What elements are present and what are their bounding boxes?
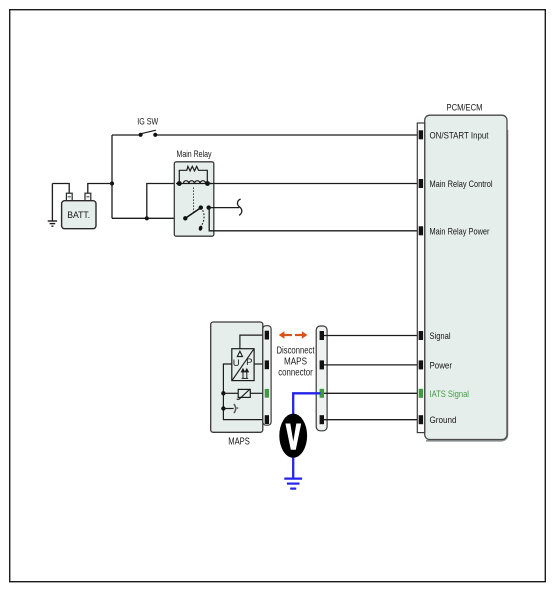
relay Main Relay: [174, 149, 214, 236]
svg-text:U: U: [233, 358, 240, 369]
pin IATS Signal: [419, 389, 423, 398]
svg-text:connector: connector: [278, 367, 313, 378]
svg-text:Main Relay Control: Main Relay Control: [430, 179, 493, 189]
ground battery: [48, 184, 57, 227]
pin Main Relay Power: [419, 226, 423, 235]
wire relay to PCM main relay power: [209, 208, 418, 231]
thermistor IATS: [223, 389, 264, 399]
svg-text:BATT.: BATT.: [67, 210, 90, 220]
ground voltmeter blue: [284, 479, 302, 489]
wire dotted relay actuator: [193, 188, 195, 213]
pin ON/START Input: [419, 130, 423, 139]
arrow disconnect left: [279, 331, 292, 339]
wire break squiggle: [237, 199, 241, 215]
connector harness side: [316, 326, 327, 431]
node temp probe junction: [221, 406, 225, 410]
svg-text:P: P: [246, 357, 252, 368]
wire transducer U down left rail: [223, 364, 264, 420]
wire voltmeter to ground blue: [292, 458, 294, 479]
symbol temp probe: [223, 404, 238, 413]
wire vertical from IG SW node down: [111, 135, 113, 218]
battery BATT.: [62, 193, 96, 229]
wire relay NO contact output: [209, 207, 240, 209]
svg-text:Main Relay Power: Main Relay Power: [430, 226, 490, 236]
pin Power: [419, 360, 423, 369]
svg-text:MAPS: MAPS: [284, 356, 307, 367]
meter voltmeter V: [279, 414, 307, 458]
sensor MAPS box: [211, 322, 263, 448]
module PCM/ECM: [417, 103, 507, 441]
wire harness power: [324, 364, 419, 366]
svg-text:Main Relay: Main Relay: [177, 149, 212, 160]
svg-text:IATS Signal: IATS Signal: [430, 389, 470, 399]
switch relay contacts: [183, 205, 211, 231]
connector MAPS side: [263, 326, 271, 426]
arrow disconnect right: [295, 331, 308, 339]
wire transducer P to power pin: [254, 363, 264, 365]
label disconnect MAPS connector: [277, 345, 315, 378]
wire voltmeter probe blue: [293, 393, 320, 414]
wire up to relay coil row: [147, 184, 179, 219]
node thermistor junction: [221, 391, 225, 395]
svg-text:Power: Power: [430, 360, 453, 370]
wire relay coil to PCM main relay control: [208, 183, 419, 185]
svg-text:Signal: Signal: [430, 331, 451, 341]
switch IG SW: [137, 117, 158, 137]
wire MAPS signal to transducer: [240, 335, 264, 349]
svg-text:ON/START Input: ON/START Input: [430, 130, 489, 140]
wire battery negative to ground: [52, 184, 69, 194]
svg-text:MAPS: MAPS: [228, 437, 250, 448]
inductor relay coil: [176, 181, 212, 184]
pin Ground: [419, 415, 423, 424]
resistor relay coil suppressor: [179, 166, 207, 183]
wire harness IATS signal: [324, 392, 419, 394]
node relay coil right pin: [205, 181, 210, 186]
wire harness signal: [324, 335, 419, 337]
pin Main Relay Control: [419, 179, 423, 188]
svg-text:Disconnect: Disconnect: [277, 345, 315, 356]
symbol pressure arrows: [241, 369, 248, 379]
wire battery positive to node: [88, 184, 112, 194]
node relay coil left pin: [177, 181, 182, 186]
svg-text:IG SW: IG SW: [137, 117, 158, 128]
pin Signal: [419, 331, 423, 340]
node junction battery/IGSW: [110, 181, 114, 185]
svg-text:Ground: Ground: [430, 415, 457, 425]
wire battery row to relay common: [112, 217, 185, 219]
node junction on bottom wire: [145, 216, 149, 220]
wire IG SW to PCM ON/START: [157, 134, 419, 136]
svg-text:PCM/ECM: PCM/ECM: [447, 103, 483, 114]
transducer U/P box: [232, 349, 254, 381]
wire IG SW left segment: [112, 134, 139, 136]
wire harness ground: [324, 419, 419, 421]
